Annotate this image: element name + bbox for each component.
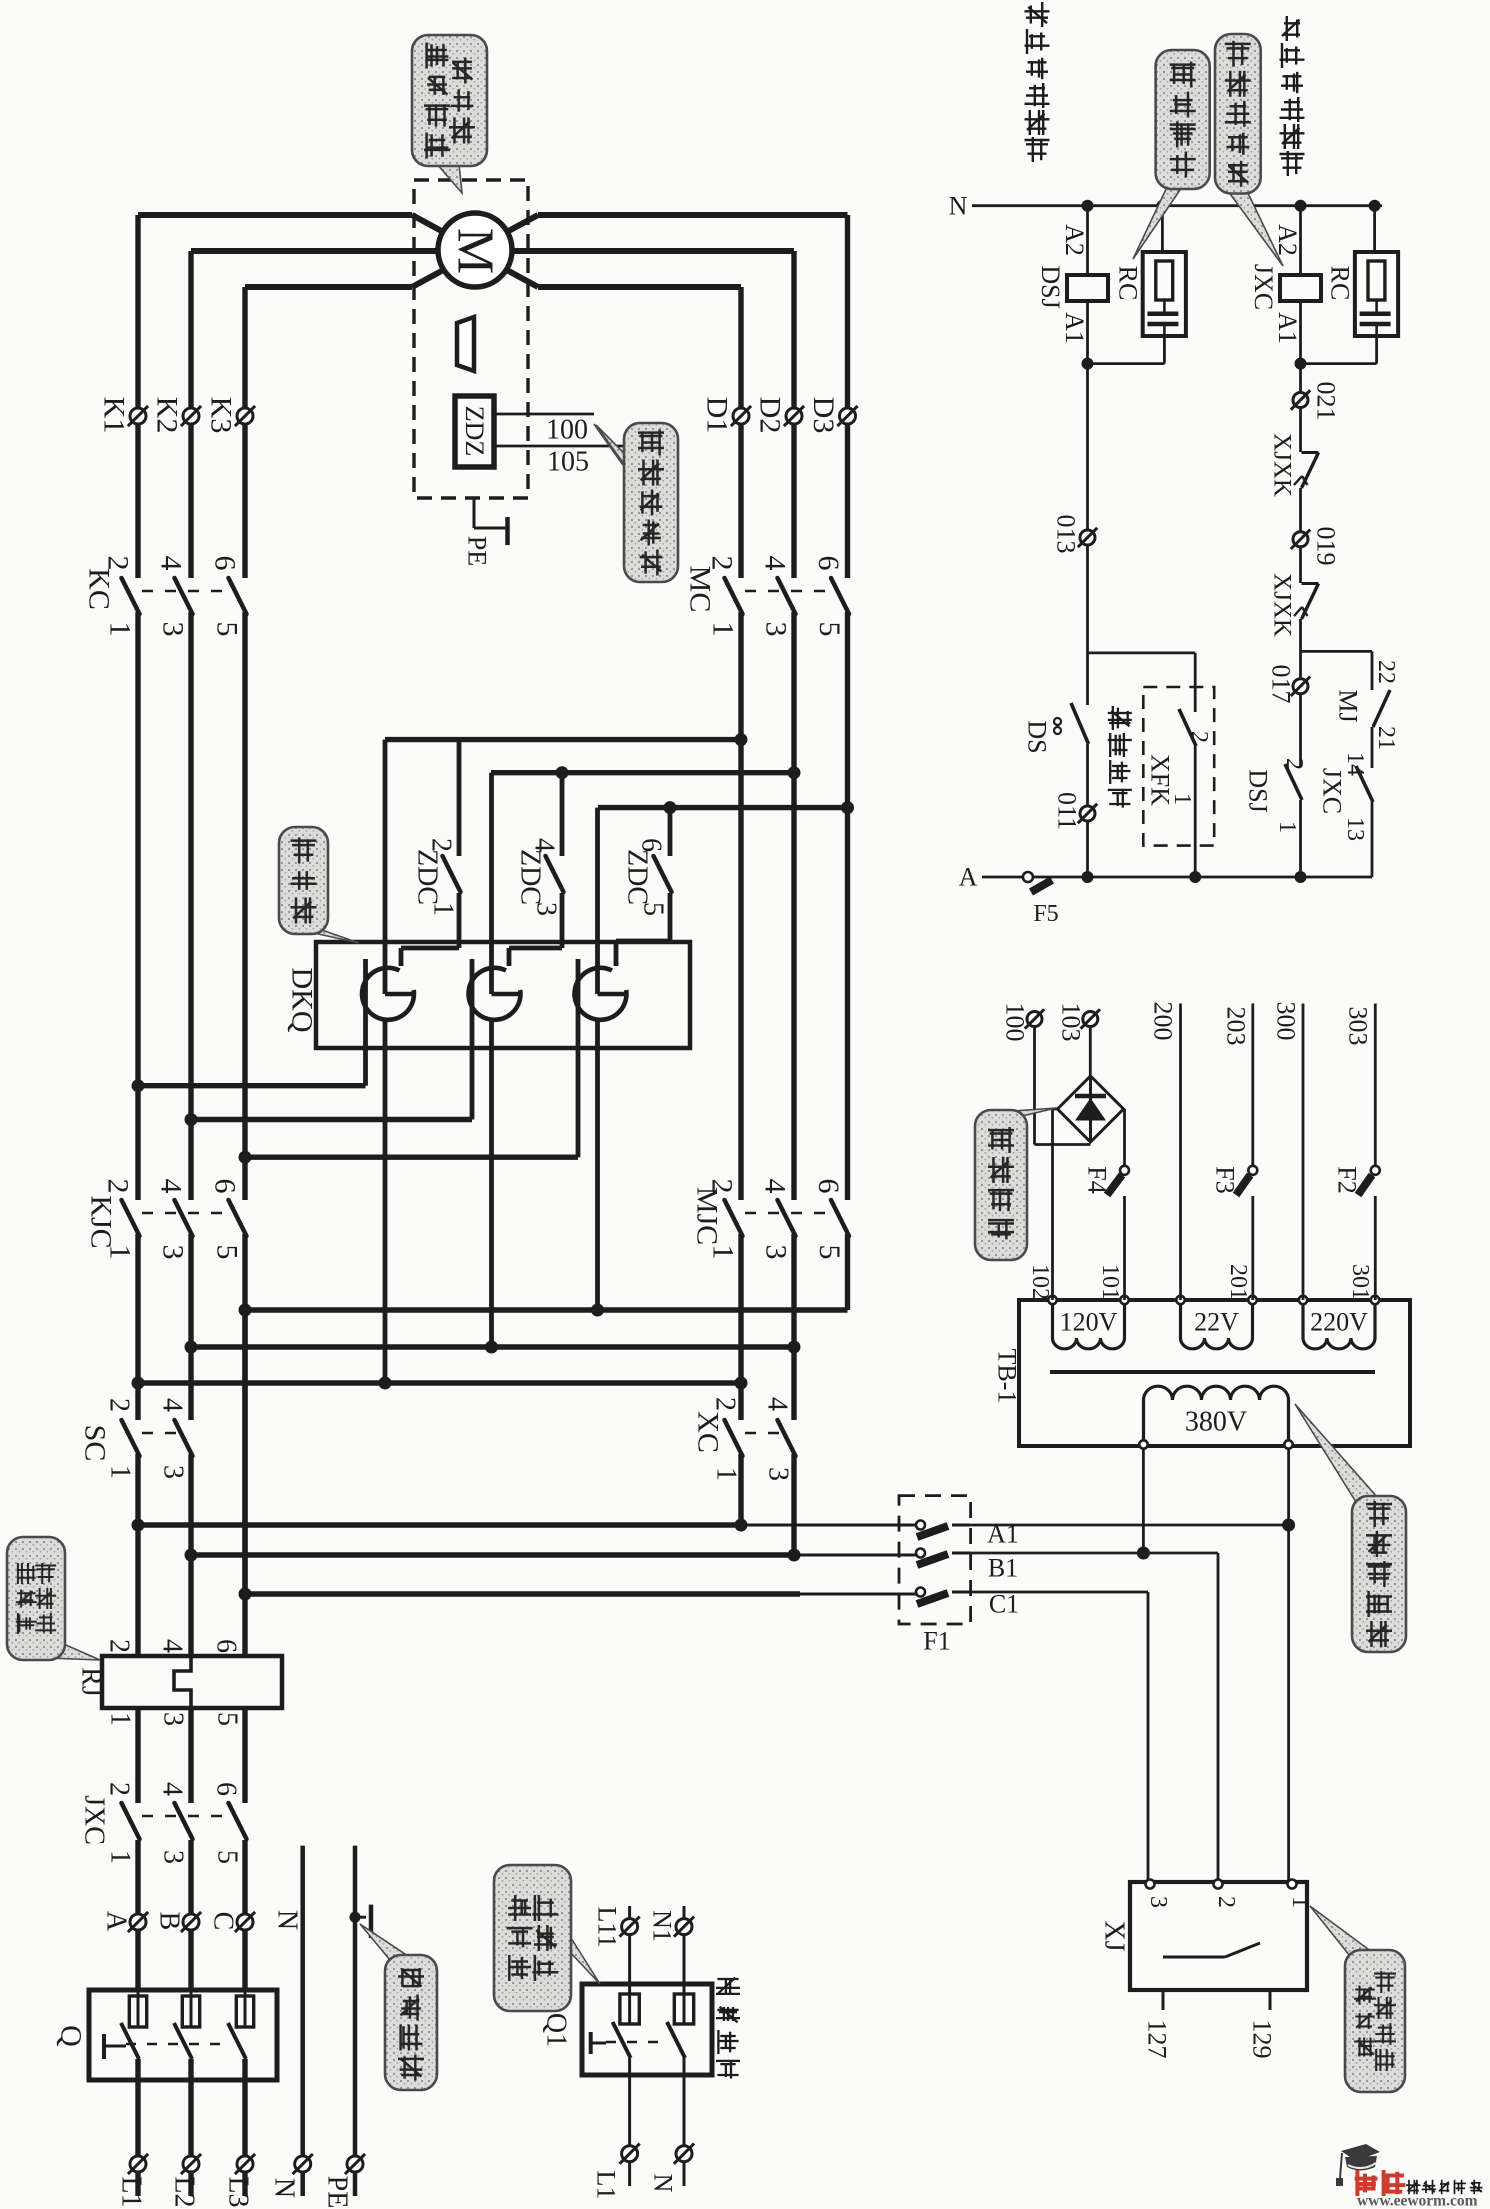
- svg-text:1: 1: [104, 622, 137, 637]
- svg-text:3: 3: [763, 1467, 794, 1481]
- svg-text:4: 4: [155, 556, 188, 571]
- svg-text:A1: A1: [1273, 312, 1302, 344]
- svg-text:5: 5: [211, 1245, 244, 1260]
- svg-text:3: 3: [760, 1245, 793, 1260]
- svg-text:C1: C1: [989, 1590, 1019, 1619]
- svg-text:F4: F4: [1083, 1166, 1112, 1193]
- svg-text:2: 2: [104, 1639, 135, 1653]
- svg-text:JXC: JXC: [1318, 768, 1347, 814]
- svg-text:XJXK: XJXK: [1269, 573, 1296, 637]
- svg-text:301: 301: [1347, 1264, 1373, 1300]
- svg-text:2: 2: [102, 1179, 135, 1194]
- svg-text:1: 1: [711, 1467, 742, 1481]
- svg-text:L2: L2: [169, 2176, 200, 2207]
- svg-text:200: 200: [1149, 1002, 1178, 1041]
- svg-text:D3: D3: [807, 397, 840, 434]
- svg-text:B1: B1: [988, 1554, 1018, 1583]
- svg-text:3: 3: [158, 1465, 189, 1479]
- svg-text:N: N: [949, 192, 968, 221]
- svg-text:JXC: JXC: [79, 1795, 110, 1845]
- svg-text:1: 1: [1274, 821, 1300, 833]
- svg-text:L3: L3: [223, 2176, 254, 2207]
- svg-text:017: 017: [1267, 665, 1296, 704]
- svg-text:XC: XC: [692, 1411, 725, 1453]
- svg-text:3: 3: [158, 1850, 189, 1864]
- svg-text:D2: D2: [754, 397, 787, 434]
- svg-text:5: 5: [813, 622, 846, 637]
- svg-text:13: 13: [1342, 817, 1368, 841]
- svg-text:4: 4: [157, 1782, 188, 1796]
- svg-text:102: 102: [1027, 1264, 1053, 1300]
- svg-text:2: 2: [1281, 758, 1307, 770]
- svg-text:4: 4: [155, 1179, 188, 1194]
- svg-text:100: 100: [546, 415, 588, 446]
- svg-text:1: 1: [707, 622, 740, 637]
- svg-text:303: 303: [1344, 1007, 1373, 1046]
- svg-text:4: 4: [762, 1397, 793, 1411]
- svg-text:A2: A2: [1060, 224, 1089, 256]
- svg-text:DSJ: DSJ: [1244, 769, 1273, 812]
- svg-text:ZDZ: ZDZ: [460, 406, 489, 457]
- svg-text:MJC: MJC: [691, 1187, 724, 1245]
- svg-text:1: 1: [105, 1712, 136, 1726]
- svg-text:2: 2: [102, 556, 135, 571]
- svg-text:3: 3: [1145, 1896, 1171, 1908]
- svg-text:MJ: MJ: [1334, 689, 1363, 722]
- svg-text:300: 300: [1272, 1002, 1301, 1041]
- svg-text:5: 5: [212, 1712, 243, 1726]
- svg-text:Q1: Q1: [541, 2013, 572, 2047]
- svg-text:TB-1: TB-1: [993, 1349, 1022, 1404]
- svg-text:A: A: [101, 1911, 132, 1932]
- svg-text:1: 1: [428, 902, 459, 916]
- svg-text:L1: L1: [592, 2171, 621, 2200]
- svg-text:6: 6: [812, 556, 845, 571]
- svg-text:4: 4: [157, 1398, 188, 1412]
- svg-text:103: 103: [1057, 1003, 1086, 1042]
- svg-text:1: 1: [105, 1465, 136, 1479]
- svg-text:F3: F3: [1211, 1166, 1240, 1193]
- svg-text:www.eeworm.com: www.eeworm.com: [1357, 2193, 1478, 2209]
- svg-text:K1: K1: [98, 397, 131, 434]
- svg-text:201: 201: [1225, 1264, 1251, 1300]
- svg-text:N: N: [649, 2174, 678, 2193]
- svg-text:2: 2: [104, 1782, 135, 1796]
- svg-text:4: 4: [529, 838, 560, 852]
- svg-text:127: 127: [1143, 2020, 1172, 2059]
- svg-text:21: 21: [1373, 726, 1399, 750]
- svg-text:KJC: KJC: [85, 1195, 118, 1248]
- svg-text:D1: D1: [701, 397, 734, 434]
- svg-text:3: 3: [157, 1245, 190, 1260]
- svg-text:3: 3: [760, 622, 793, 637]
- svg-text:019: 019: [1312, 527, 1341, 566]
- svg-text:N: N: [269, 2178, 300, 2198]
- svg-text:A: A: [959, 863, 978, 892]
- svg-text:380V: 380V: [1185, 1407, 1247, 1438]
- svg-text:RC: RC: [1113, 266, 1142, 301]
- svg-text:22V: 22V: [1194, 1308, 1239, 1337]
- svg-text:2: 2: [1186, 731, 1212, 743]
- svg-text:2: 2: [710, 1397, 741, 1411]
- svg-text:3: 3: [158, 1712, 189, 1726]
- svg-text:N: N: [272, 1910, 303, 1930]
- svg-text:101: 101: [1097, 1264, 1123, 1300]
- svg-text:120V: 120V: [1060, 1308, 1118, 1337]
- svg-text:1: 1: [104, 1245, 137, 1260]
- svg-text:105: 105: [547, 447, 589, 478]
- svg-text:XJ: XJ: [1099, 1920, 1130, 1951]
- svg-text:RJ: RJ: [76, 1667, 107, 1697]
- svg-text:M: M: [447, 228, 504, 274]
- svg-text:C: C: [208, 1912, 239, 1931]
- svg-text:N1: N1: [648, 1910, 677, 1942]
- svg-text:A2: A2: [1273, 224, 1302, 256]
- svg-text:6: 6: [636, 838, 667, 852]
- svg-text:220V: 220V: [1310, 1308, 1368, 1337]
- svg-text:MC: MC: [684, 566, 717, 613]
- svg-text:B: B: [154, 1912, 185, 1931]
- svg-text:011: 011: [1053, 792, 1082, 830]
- svg-text:5: 5: [212, 1850, 243, 1864]
- svg-text:1: 1: [1287, 1896, 1313, 1908]
- svg-text:100: 100: [1001, 1003, 1030, 1042]
- svg-text:2: 2: [104, 1398, 135, 1412]
- svg-text:3: 3: [531, 902, 562, 916]
- svg-text:L11: L11: [593, 1907, 622, 1948]
- svg-text:6: 6: [812, 1179, 845, 1194]
- svg-text:3: 3: [157, 622, 190, 637]
- svg-text:1: 1: [105, 1850, 136, 1864]
- svg-text:2: 2: [426, 838, 457, 852]
- svg-text:6: 6: [209, 1179, 242, 1194]
- svg-text:6: 6: [211, 1782, 242, 1796]
- svg-text:4: 4: [759, 1179, 792, 1194]
- svg-text:XJXK: XJXK: [1269, 433, 1296, 497]
- svg-text:021: 021: [1312, 382, 1341, 421]
- svg-text:1: 1: [1169, 793, 1195, 805]
- svg-text:JXC: JXC: [1249, 264, 1278, 310]
- svg-text:DKQ: DKQ: [286, 968, 319, 1033]
- svg-text:ZDC: ZDC: [622, 849, 653, 905]
- svg-text:4: 4: [157, 1639, 188, 1653]
- svg-text:1: 1: [707, 1245, 740, 1260]
- svg-text:F1: F1: [923, 1627, 950, 1656]
- svg-text:L1: L1: [116, 2176, 147, 2207]
- svg-text:Q: Q: [55, 2025, 88, 2047]
- svg-text:PE: PE: [322, 2176, 353, 2209]
- svg-text:2: 2: [706, 556, 739, 571]
- svg-text:5: 5: [813, 1245, 846, 1260]
- svg-text:K2: K2: [151, 397, 184, 434]
- svg-text:RC: RC: [1326, 266, 1355, 301]
- svg-text:013: 013: [1052, 515, 1081, 554]
- svg-text:KC: KC: [83, 568, 116, 610]
- svg-text:5: 5: [638, 902, 669, 916]
- svg-text:A1: A1: [1060, 312, 1089, 344]
- svg-text:2: 2: [706, 1179, 739, 1194]
- svg-text:ZDC: ZDC: [515, 849, 546, 905]
- svg-text:F5: F5: [1033, 901, 1058, 927]
- svg-text:129: 129: [1248, 2020, 1277, 2059]
- svg-text:2: 2: [1213, 1896, 1239, 1908]
- svg-text:PE: PE: [463, 536, 492, 566]
- svg-text:4: 4: [759, 556, 792, 571]
- svg-text:ZDC: ZDC: [412, 849, 443, 905]
- svg-text:6: 6: [209, 556, 242, 571]
- svg-text:6: 6: [211, 1639, 242, 1653]
- svg-text:K3: K3: [205, 397, 238, 434]
- svg-text:SC: SC: [79, 1425, 112, 1462]
- svg-text:DSJ: DSJ: [1036, 265, 1065, 308]
- svg-text:DS: DS: [1023, 720, 1052, 753]
- svg-text:5: 5: [211, 622, 244, 637]
- svg-text:203: 203: [1222, 1007, 1251, 1046]
- svg-text:22: 22: [1373, 660, 1399, 684]
- svg-text:F2: F2: [1333, 1166, 1362, 1193]
